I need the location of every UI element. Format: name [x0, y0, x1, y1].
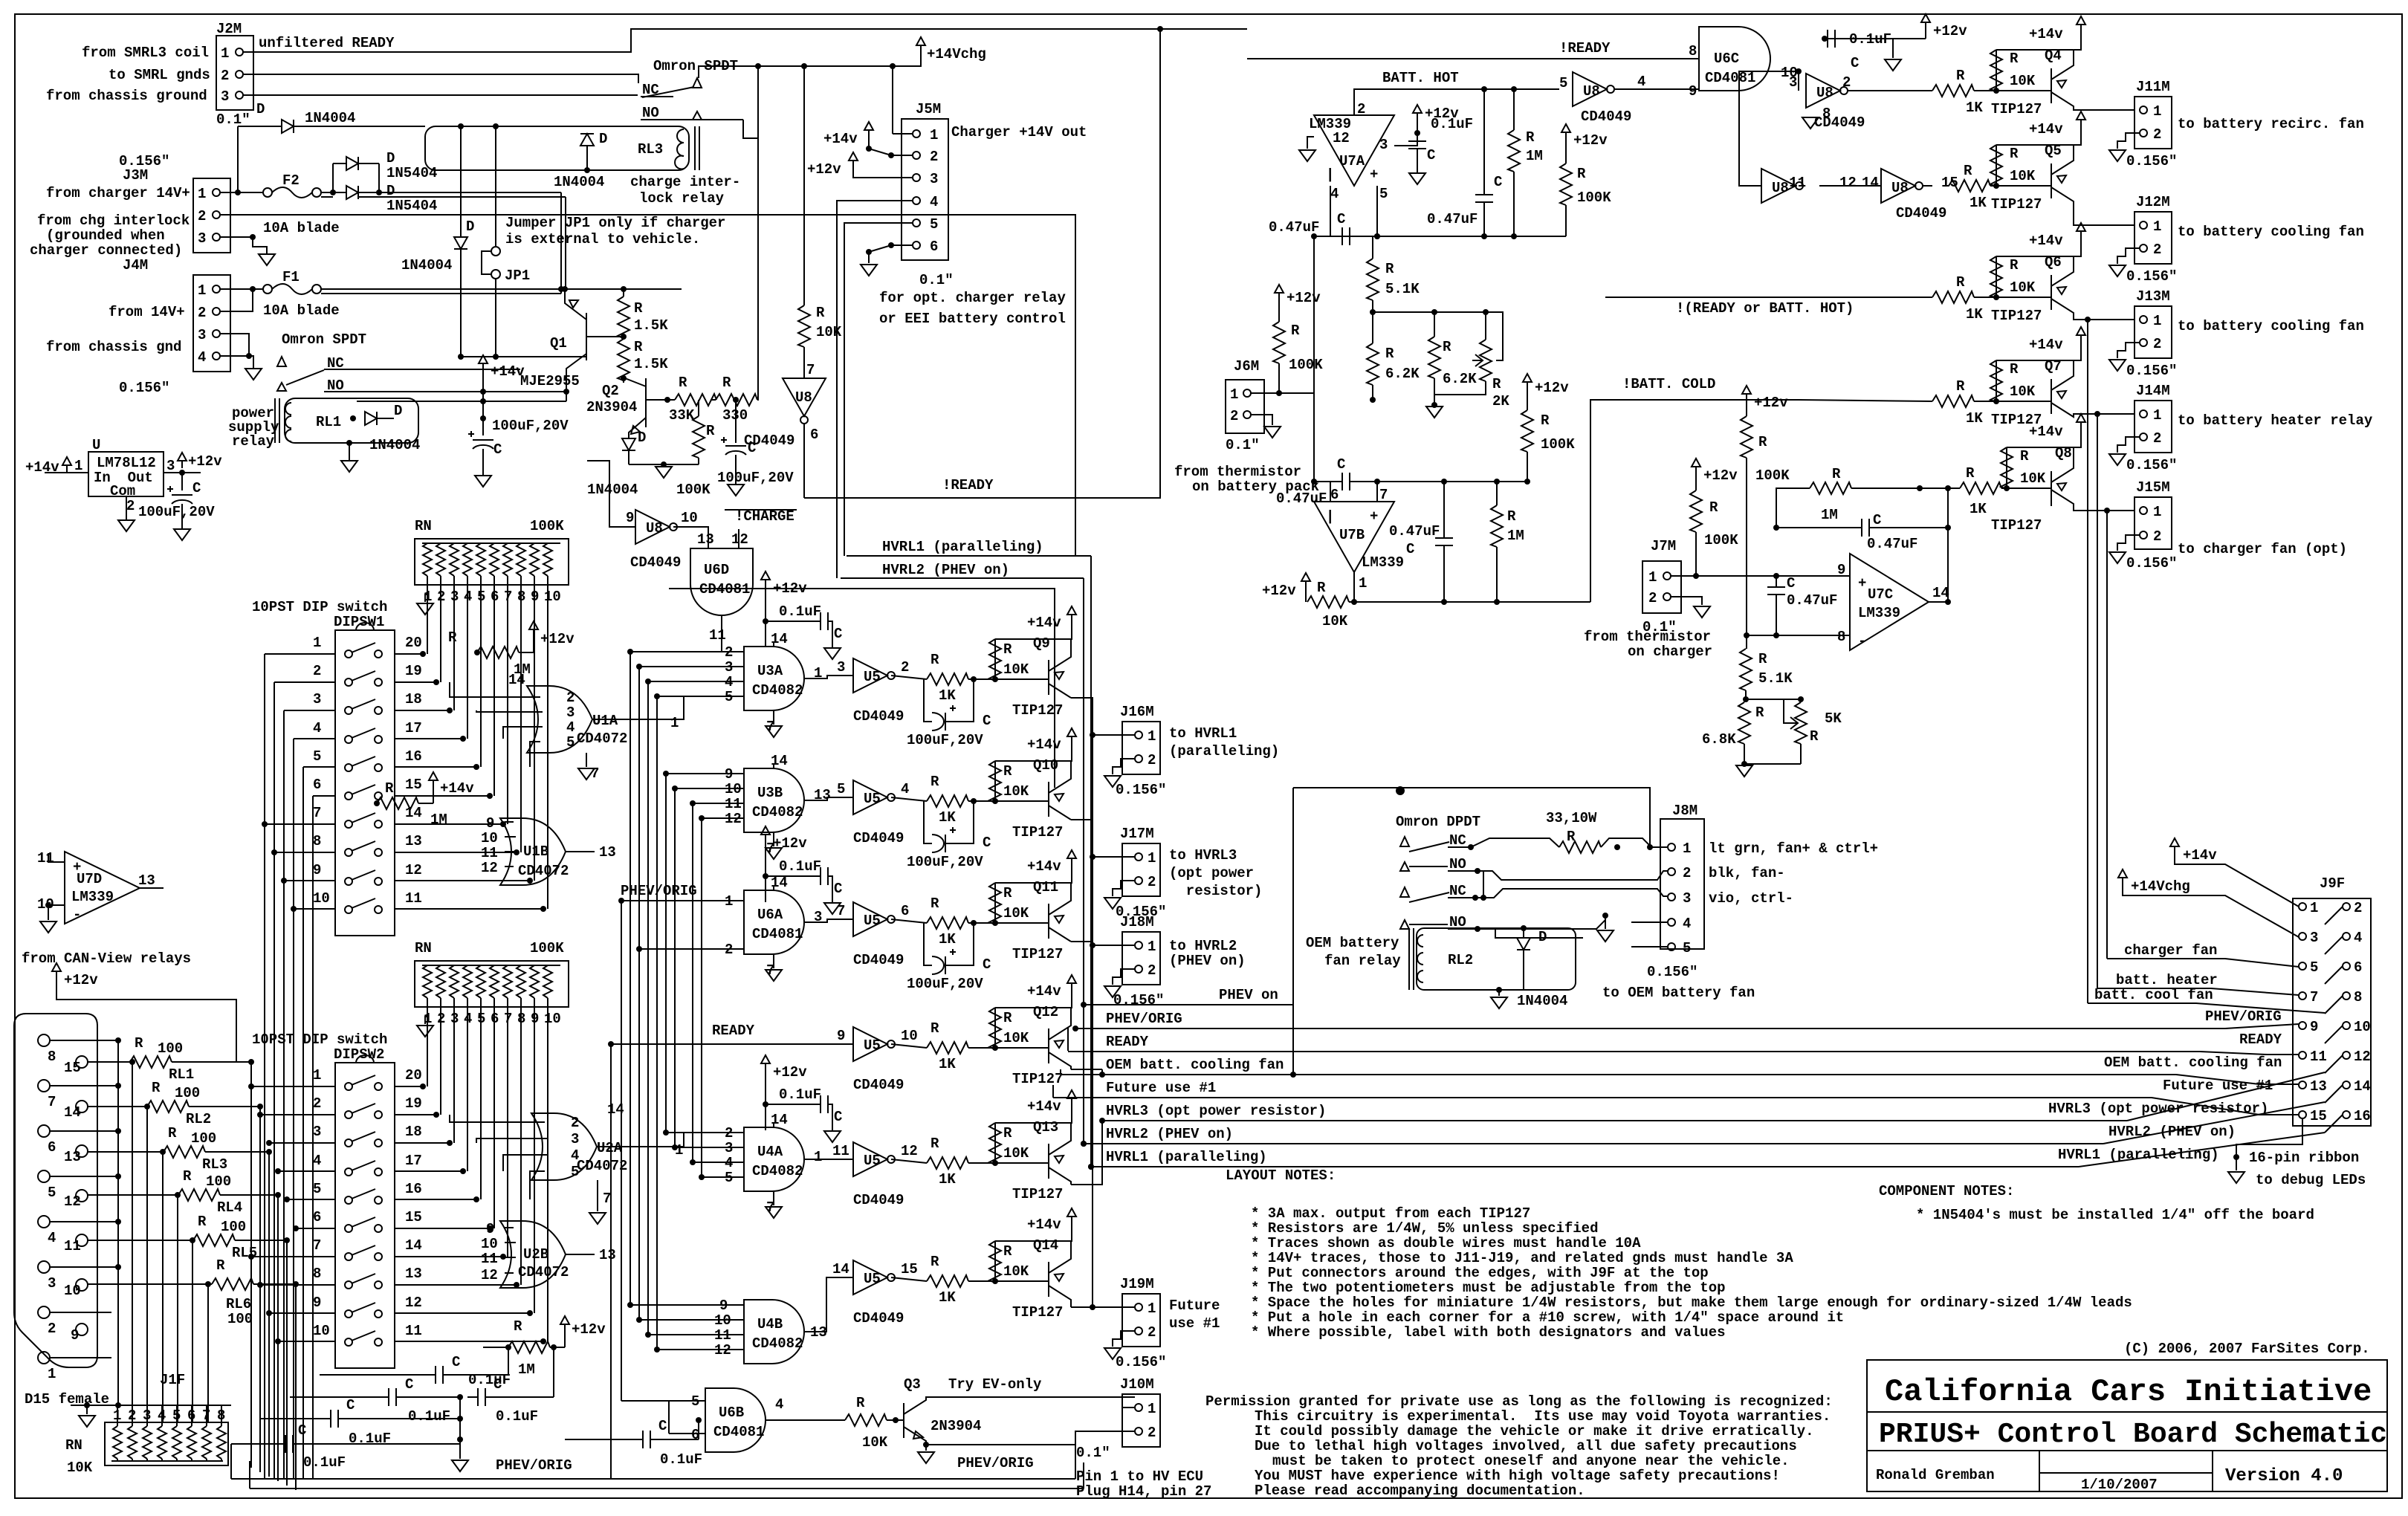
svg-text:D: D: [386, 150, 395, 166]
svg-text:2: 2: [571, 1115, 579, 1131]
svg-text:+14v: +14v: [1027, 615, 1061, 631]
resistor R 1K (Q14): [927, 1254, 1049, 1306]
relay RL1 contact NC: [277, 355, 520, 385]
+12v power (J6M pullup): [1275, 285, 1321, 306]
svg-text:R: R: [385, 780, 394, 797]
resistor R 33,10W: [1559, 838, 1668, 853]
+14v power (switched rail): [479, 355, 525, 435]
svg-text:!READY: !READY: [1559, 40, 1611, 56]
svg-text:12: 12: [64, 1193, 81, 1210]
wire J10M pin2: [1075, 1431, 1135, 1445]
svg-text:0.156": 0.156": [1113, 992, 1164, 1008]
svg-text:+14v: +14v: [440, 780, 474, 797]
svg-text:5.1K: 5.1K: [1758, 670, 1793, 687]
connector J1F D15 female: [14, 1014, 185, 1408]
svg-text:Try EV-only: Try EV-only: [948, 1376, 1042, 1393]
inverter U8 (5 to 4) CD4049: [1559, 72, 1699, 125]
svg-text:1K: 1K: [1966, 100, 1983, 116]
svg-text:NO: NO: [1449, 856, 1466, 872]
svg-text:10K: 10K: [2010, 383, 2036, 400]
svg-text:4: 4: [1683, 916, 1691, 932]
connector J16M: [1104, 704, 1166, 798]
svg-text:R: R: [816, 305, 825, 321]
svg-text:Q13: Q13: [1033, 1119, 1058, 1136]
capacitor C 0.1uF (DIP filter 4): [320, 1354, 511, 1388]
svg-text:charger fan: charger fan: [2124, 942, 2217, 959]
gate U2B CD4072: [481, 1221, 616, 1288]
svg-text:J19M: J19M: [1120, 1276, 1154, 1292]
svg-text:100uF,20V: 100uF,20V: [907, 976, 983, 992]
svg-text:16: 16: [405, 748, 422, 765]
svg-text:12: 12: [1839, 175, 1857, 191]
wire Q6 input: [1605, 297, 1932, 298]
relay RL1 contact NO: [277, 378, 483, 401]
svg-text:3: 3: [930, 171, 938, 187]
capacitor C 0.47uF (series, U7A minus): [1269, 211, 1350, 245]
svg-text:9: 9: [2310, 1019, 2318, 1035]
resistor R 1K (Q7): [1932, 378, 2051, 427]
svg-text:NC: NC: [1449, 883, 1466, 899]
svg-text:R: R: [1832, 466, 1841, 482]
svg-text:33K: 33K: [669, 407, 695, 424]
wires bundle to DIPSW2 left pins: [248, 1083, 335, 1344]
svg-text:100K: 100K: [1577, 189, 1611, 206]
svg-text:U6C: U6C: [1714, 51, 1739, 67]
svg-text:100: 100: [206, 1173, 231, 1190]
svg-text:1M: 1M: [1526, 148, 1543, 164]
power supply relay RL1: [228, 398, 418, 450]
svg-text:R: R: [1003, 641, 1012, 658]
inverter U5 (3 to 2) CD4049: [837, 658, 927, 725]
svg-text:15: 15: [901, 1261, 918, 1277]
svg-text:4: 4: [2354, 930, 2362, 946]
+14v power (Q13): [1027, 1090, 1076, 1115]
svg-text:13: 13: [405, 1266, 422, 1282]
svg-text:100K: 100K: [1541, 436, 1575, 453]
svg-text:unfiltered READY: unfiltered READY: [259, 35, 395, 51]
DIP switch DIPSW2 10PST: [252, 1031, 422, 1368]
svg-text:* 1N5404's must be installed 1: * 1N5404's must be installed 1/4" off th…: [1916, 1207, 2314, 1223]
svg-text:+14v: +14v: [2029, 121, 2063, 137]
ground (+14v cap): [475, 476, 491, 487]
svg-text:Q8: Q8: [2055, 445, 2072, 461]
wire J15M to bus (charger fan): [2104, 508, 2110, 959]
svg-text:R: R: [634, 300, 643, 317]
wire aux row: [669, 589, 1055, 788]
svg-text:PHEV on: PHEV on: [1219, 987, 1278, 1003]
svg-text:5: 5: [930, 216, 938, 233]
svg-text:1K: 1K: [1966, 410, 1983, 427]
svg-text:10K: 10K: [2020, 470, 2046, 487]
relay RL2 contact NC (pole 1): [1400, 832, 1559, 852]
svg-text:12: 12: [481, 860, 498, 876]
svg-text:3: 3: [166, 458, 175, 474]
svg-text:2: 2: [1648, 590, 1657, 606]
svg-text:RL1: RL1: [169, 1066, 194, 1083]
svg-text:3: 3: [313, 1124, 321, 1140]
resistor R 10K (Q11): [989, 866, 1072, 926]
+14v power (Q4): [1996, 16, 2085, 50]
resistor R 330: [711, 63, 761, 424]
svg-text:20: 20: [405, 635, 422, 651]
svg-text:for opt. charger relay: for opt. charger relay: [879, 290, 1066, 306]
svg-text:0.1uF: 0.1uF: [1431, 116, 1473, 132]
svg-text:U5: U5: [864, 669, 881, 685]
svg-text:+: +: [1370, 166, 1378, 183]
svg-text:0.1uF: 0.1uF: [408, 1408, 450, 1425]
svg-text:1: 1: [2153, 218, 2161, 235]
ground (relay NO pole2): [1597, 916, 1614, 942]
wires bus to J9F: [2079, 1024, 2325, 1167]
svg-text:* Traces shown as double wires: * Traces shown as double wires must hand…: [1251, 1235, 1641, 1251]
svg-text:4: 4: [313, 1153, 321, 1169]
svg-text:charger connected): charger connected): [30, 242, 182, 259]
svg-text:1N5404: 1N5404: [386, 165, 437, 181]
svg-text:J17M: J17M: [1120, 826, 1154, 842]
ground (cap staircase): [452, 1460, 468, 1471]
svg-text:6: 6: [930, 239, 938, 255]
svg-text:1K: 1K: [939, 687, 956, 704]
svg-text:10: 10: [313, 1323, 330, 1339]
resistor R 100 RL2: [88, 1080, 263, 1127]
svg-text:R: R: [930, 774, 939, 790]
svg-text:1: 1: [48, 1366, 56, 1382]
resistor R 1K (Q5): [1949, 163, 2051, 211]
svg-text:!READY: !READY: [942, 477, 994, 493]
ground (U2A pin7): [589, 1180, 611, 1224]
svg-text:3: 3: [48, 1275, 56, 1292]
ground (J1F shell): [79, 1416, 95, 1427]
svg-text:R: R: [1577, 166, 1586, 182]
svg-text:1/10/2007: 1/10/2007: [2081, 1477, 2158, 1493]
svg-text:R: R: [1003, 1125, 1012, 1141]
+12v power (gate supply): [761, 826, 807, 902]
net charger fan: [2107, 942, 2299, 967]
wire relay block top rail: [1290, 786, 1650, 1078]
svg-text:2: 2: [1148, 962, 1156, 979]
capacitor C 100uF,20V (Q11): [907, 920, 991, 992]
svg-text:D: D: [386, 183, 395, 199]
svg-text:5: 5: [48, 1185, 56, 1201]
svg-text:9: 9: [486, 815, 494, 832]
svg-text:R: R: [448, 629, 457, 646]
svg-text:2: 2: [2354, 900, 2362, 916]
svg-text:PRIUS+ Control Board Schematic: PRIUS+ Control Board Schematic: [1879, 1419, 2387, 1451]
svg-text:10: 10: [901, 1028, 918, 1044]
svg-text:Ronald Gremban: Ronald Gremban: [1876, 1467, 1995, 1483]
capacitor C 0.1uF (gate supply): [766, 1086, 842, 1131]
svg-text:100uF,20V: 100uF,20V: [907, 732, 983, 748]
transistor Q5 TIP127: [1991, 143, 2134, 225]
svg-text:10K: 10K: [1003, 905, 1029, 921]
resistor R 10K (Q13): [989, 1106, 1072, 1166]
wires DIPSW1 rows to gate U1A: [450, 682, 531, 767]
svg-text:J12M: J12M: [2136, 194, 2170, 210]
svg-text:1: 1: [198, 186, 206, 202]
wire HVRL2 rail: [1083, 578, 1084, 1144]
wire hysteresis node row: [0, 0, 1566, 239]
svg-text:R: R: [722, 375, 731, 391]
capacitor C 100uF,20V (Q2): [717, 400, 794, 486]
ground (J15M): [2109, 552, 2126, 563]
svg-text:R: R: [1755, 704, 1764, 721]
svg-text:to battery heater relay: to battery heater relay: [2178, 412, 2373, 429]
svg-text:13: 13: [138, 872, 155, 889]
wire U2A output: [597, 1133, 699, 1147]
svg-text:+14v: +14v: [1027, 1098, 1061, 1115]
svg-text:Due to lethal high voltages in: Due to lethal high voltages involved, al…: [1255, 1438, 1797, 1454]
svg-text:13: 13: [599, 844, 616, 861]
svg-text:10: 10: [681, 510, 698, 526]
svg-text:14: 14: [1932, 585, 1949, 601]
resistor R 5.1K: [1367, 233, 1420, 312]
wire capF rise: [696, 1417, 702, 1439]
svg-text:RL2: RL2: [1448, 952, 1473, 968]
+14Vchg power: [916, 37, 986, 62]
svg-text:2: 2: [1148, 874, 1156, 890]
svg-text:1: 1: [74, 458, 82, 474]
svg-text:U8: U8: [1772, 180, 1789, 196]
svg-text:R: R: [1758, 434, 1767, 450]
capacitor C 0.1uF (DIP filter 6): [565, 1418, 702, 1468]
resistor R 6.2K (left): [1367, 312, 1420, 403]
connector J19M: [1104, 1276, 1166, 1370]
svg-text:11: 11: [405, 890, 422, 907]
resistor R 1K (Q10): [924, 774, 1049, 826]
connector J8M: [1631, 803, 1704, 956]
svg-text:3: 3: [221, 88, 229, 105]
svg-text:C: C: [405, 1376, 413, 1393]
svg-text:CD4081: CD4081: [699, 581, 750, 597]
svg-text:3: 3: [2310, 930, 2318, 946]
svg-text:18: 18: [405, 691, 422, 707]
inverter U8 (11 to 12) CD4049: [1761, 169, 1857, 203]
inverter U5 (7 to 6) CD4049: [837, 902, 927, 968]
wire RL3 to RN10K: [162, 1152, 164, 1422]
svg-text:must be taken to protect onese: must be taken to protect oneself and any…: [1272, 1453, 1790, 1469]
wire U6A pin2: [639, 948, 699, 950]
svg-text:Omron SPDT: Omron SPDT: [282, 331, 366, 348]
wire J2M pin2: [243, 74, 638, 83]
svg-text:1M: 1M: [1507, 528, 1524, 544]
connector J3M: [119, 153, 230, 253]
svg-text:U5: U5: [864, 1037, 881, 1054]
svg-text:1: 1: [198, 282, 206, 299]
svg-text:resistor): resistor): [1169, 883, 1262, 899]
svg-text:1: 1: [1148, 1300, 1156, 1317]
svg-text:CD4049: CD4049: [744, 433, 794, 449]
svg-text:Q11: Q11: [1033, 879, 1058, 895]
transistor Q11 TIP127: [1012, 879, 1071, 962]
svg-text:LM339: LM339: [71, 889, 114, 905]
gate U4B CD4082: [699, 1298, 827, 1364]
svg-text:0.156": 0.156": [1116, 782, 1166, 798]
svg-text:It could possibly damage the v: It could possibly damage the vehicle or …: [1255, 1423, 1814, 1439]
wire 14V+ double trace verticals: [558, 192, 566, 294]
svg-text:PHEV/ORIG: PHEV/ORIG: [1106, 1011, 1182, 1027]
svg-text:0.47uF: 0.47uF: [1276, 490, 1327, 507]
svg-text:DIPSW1: DIPSW1: [334, 614, 384, 630]
resistor R 100 RL1: [88, 1035, 254, 1083]
svg-text:READY: READY: [712, 1023, 755, 1039]
svg-text:+14v: +14v: [2029, 424, 2063, 440]
svg-text:NC: NC: [1449, 832, 1466, 849]
ground (Q2 cap): [728, 485, 744, 496]
svg-text:R: R: [1003, 1010, 1012, 1026]
svg-text:+12v: +12v: [1754, 395, 1788, 411]
wire J5M pin1: [893, 66, 913, 134]
svg-text:TIP127: TIP127: [1012, 702, 1063, 719]
svg-text:0.1uF: 0.1uF: [660, 1451, 702, 1468]
resistor network RN 100K (RN1): [415, 518, 569, 605]
svg-text:10K: 10K: [1322, 613, 1348, 629]
resistor R 10K (Q9): [989, 622, 1072, 682]
svg-text:CD4082: CD4082: [752, 1335, 803, 1352]
connector J13M: [2117, 288, 2172, 358]
svg-text:7: 7: [48, 1094, 56, 1110]
resistor R 6.8K: [1702, 699, 1764, 767]
svg-text:R: R: [183, 1168, 192, 1185]
svg-text:|: |: [1326, 166, 1334, 183]
resistor network RN 100K (RN2): [415, 940, 569, 1027]
svg-text:1N4004: 1N4004: [369, 437, 420, 453]
+14v power (Q9): [1027, 606, 1076, 631]
svg-text:Com: Com: [110, 483, 135, 499]
wire J14M to bus (batt heater): [2094, 411, 2100, 988]
ground (U8 pin 8): [1802, 106, 1831, 129]
ground (J13M): [2109, 360, 2126, 371]
ground (J3M pin3): [259, 254, 275, 265]
svg-text:or EEI battery control: or EEI battery control: [879, 311, 1066, 327]
wire J17M feed: [1071, 820, 1135, 857]
svg-text:U4A: U4A: [757, 1144, 783, 1160]
wires DIPSW2 rows to gate U2A: [450, 1115, 536, 1199]
svg-text:charge inter-: charge inter-: [630, 174, 740, 190]
svg-text:+12v: +12v: [1535, 380, 1569, 396]
svg-text:1: 1: [2153, 103, 2161, 120]
svg-text:10PST DIP switch: 10PST DIP switch: [252, 599, 387, 615]
wire U7A pin3 to +12v: [1394, 133, 1417, 146]
ground (6.8K): [1736, 765, 1752, 777]
svg-text:READY: READY: [1106, 1034, 1149, 1050]
svg-text:C: C: [346, 1397, 355, 1413]
svg-text:to debug LEDs: to debug LEDs: [2256, 1172, 2366, 1188]
svg-text:0.156": 0.156": [1647, 964, 1697, 980]
svg-text:R: R: [1966, 465, 1975, 482]
svg-text:0.47uF: 0.47uF: [1787, 592, 1837, 609]
+12v power (LM78L12 out): [178, 453, 222, 476]
svg-text:R: R: [168, 1125, 177, 1141]
svg-text:6.2K: 6.2K: [1385, 366, 1420, 382]
svg-text:10K: 10K: [1003, 783, 1029, 800]
svg-text:6.8K: 6.8K: [1702, 731, 1736, 748]
svg-text:Q1: Q1: [550, 335, 567, 352]
wire U1B output: [566, 851, 595, 852]
svg-text:2: 2: [198, 208, 206, 224]
svg-text:R: R: [1956, 274, 1965, 291]
inverter U8 (14 to 15) CD4049: [1819, 169, 1958, 221]
svg-text:20: 20: [405, 1067, 422, 1083]
svg-text:100: 100: [175, 1085, 200, 1101]
svg-text:3: 3: [1379, 137, 1388, 153]
svg-text:7: 7: [806, 362, 815, 378]
capacitor C 0.1uF (gate supply): [766, 603, 842, 648]
resistor R 1K (Q11): [924, 895, 1049, 947]
svg-text:TIP127: TIP127: [1991, 308, 2042, 324]
connector J2M: [216, 21, 265, 128]
permission paragraph: [1205, 1393, 1833, 1499]
wire Q7 input (!BATT. COLD): [1799, 400, 1932, 401]
+14v power (Q5): [1996, 111, 2085, 145]
svg-text:PHEV/ORIG: PHEV/ORIG: [957, 1455, 1034, 1471]
svg-text:2: 2: [1683, 865, 1691, 881]
svg-text:R: R: [1443, 339, 1451, 355]
svg-text:8: 8: [1689, 43, 1697, 59]
ground (0.1uF): [824, 1131, 841, 1142]
resistor R 1.5K (upper): [618, 286, 668, 339]
svg-text:19: 19: [405, 663, 422, 679]
svg-text:10K: 10K: [1003, 1263, 1029, 1280]
svg-text:R: R: [930, 652, 939, 668]
resistor R 100 RL5: [88, 1214, 290, 1261]
svg-text:HVRL2 (PHEV on): HVRL2 (PHEV on): [1106, 1126, 1233, 1142]
svg-text:R: R: [1810, 728, 1819, 745]
gate U6C CD4081: [1689, 27, 1798, 100]
svg-text:C: C: [1427, 147, 1435, 163]
svg-text:R: R: [930, 1020, 939, 1037]
svg-text:to charger fan (opt): to charger fan (opt): [2178, 541, 2347, 557]
ground (6.2K): [1426, 402, 1443, 418]
transistor Q4 TIP127: [1991, 48, 2134, 117]
svg-text:12: 12: [2354, 1049, 2371, 1065]
svg-text:6: 6: [810, 427, 818, 443]
net batt. heater: [2097, 972, 2299, 995]
+14v power (Q6): [1996, 223, 2085, 256]
svg-text:100uF,20V: 100uF,20V: [492, 418, 569, 434]
svg-text:U6A: U6A: [757, 907, 783, 923]
svg-text:2: 2: [2153, 430, 2161, 447]
svg-text:!(READY or BATT. HOT): !(READY or BATT. HOT): [1676, 300, 1854, 317]
svg-text:U7D: U7D: [77, 871, 102, 887]
svg-text:1: 1: [670, 715, 679, 731]
connector J11M: [2117, 79, 2172, 149]
svg-text:-: -: [73, 907, 81, 923]
svg-text:5: 5: [2310, 959, 2318, 976]
svg-text:Permission granted for private: Permission granted for private use as lo…: [1205, 1393, 1833, 1410]
svg-text:from SMRL3 coil: from SMRL3 coil: [82, 45, 209, 61]
svg-text:11: 11: [832, 1143, 849, 1159]
svg-text:U7B: U7B: [1339, 527, 1365, 543]
svg-text:10K: 10K: [1003, 1030, 1029, 1046]
svg-text:C: C: [983, 713, 991, 729]
svg-text:8: 8: [2354, 989, 2362, 1005]
ground (RL2): [1491, 990, 1507, 1008]
svg-text:CD4049: CD4049: [853, 952, 904, 968]
+12v power (J5M pin3): [807, 152, 913, 178]
svg-text:Q6: Q6: [2045, 254, 2062, 271]
svg-text:* 14V+ traces, those to J11-J1: * 14V+ traces, those to J11-J19, and rel…: [1251, 1250, 1793, 1266]
+14v power (J9F): [2170, 838, 2299, 907]
svg-text:J5M: J5M: [916, 101, 941, 117]
svg-text:Please read accompanying docum: Please read accompanying documentation.: [1255, 1483, 1585, 1499]
svg-text:5: 5: [1379, 186, 1388, 202]
svg-text:15: 15: [2310, 1108, 2327, 1124]
svg-text:2: 2: [1148, 752, 1156, 768]
resistor R 1K (Q4): [1932, 68, 2051, 116]
svg-text:Q3: Q3: [904, 1376, 921, 1393]
transistor Q1 MJE2955: [520, 286, 586, 401]
svg-text:+14v: +14v: [1027, 1217, 1061, 1233]
